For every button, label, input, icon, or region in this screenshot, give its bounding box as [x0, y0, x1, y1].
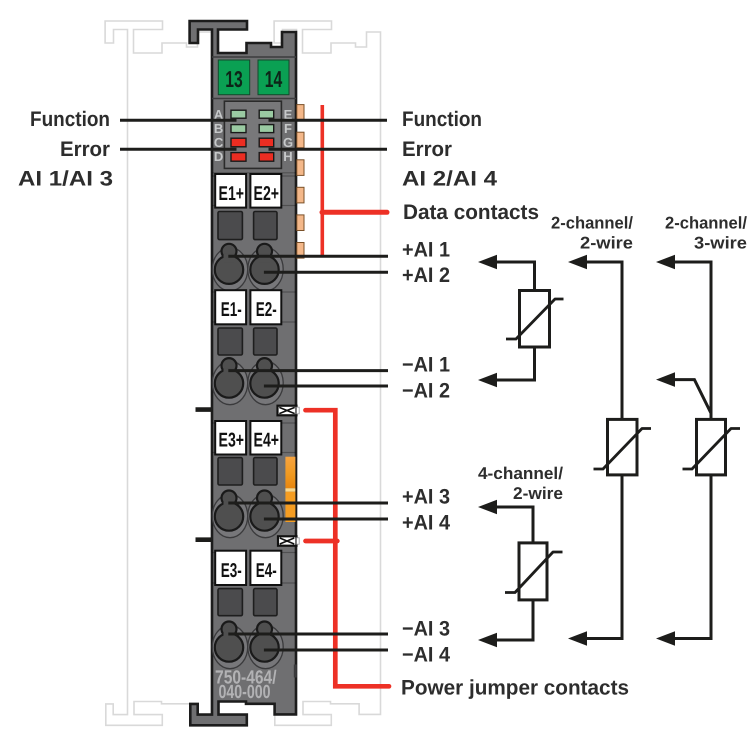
svg-text:Error: Error	[402, 138, 452, 161]
svg-text:040-000: 040-000	[219, 682, 271, 703]
svg-text:3-wire: 3-wire	[694, 233, 747, 252]
svg-text:Function: Function	[402, 108, 482, 131]
svg-text:E4-: E4-	[256, 560, 277, 582]
svg-text:D: D	[214, 149, 223, 164]
svg-text:E2-: E2-	[256, 299, 277, 321]
svg-text:H: H	[283, 149, 292, 164]
svg-text:E1-: E1-	[221, 299, 242, 321]
svg-text:E1+: E1+	[219, 183, 245, 205]
svg-text:E3-: E3-	[221, 560, 242, 582]
svg-text:E3+: E3+	[219, 430, 245, 452]
svg-text:4-channel/: 4-channel/	[478, 464, 563, 483]
svg-text:−AI 4: −AI 4	[402, 643, 450, 666]
svg-text:+AI 4: +AI 4	[402, 511, 450, 534]
svg-text:+AI 1: +AI 1	[402, 238, 450, 261]
svg-text:E2+: E2+	[254, 183, 280, 205]
svg-text:Error: Error	[60, 138, 110, 161]
svg-text:AI 1/AI 3: AI 1/AI 3	[18, 167, 113, 190]
svg-text:Function: Function	[30, 108, 110, 131]
svg-text:E4+: E4+	[254, 430, 280, 452]
svg-text:+AI 3: +AI 3	[402, 485, 450, 508]
svg-text:+AI 2: +AI 2	[402, 264, 450, 287]
svg-text:2-channel/: 2-channel/	[551, 214, 633, 233]
svg-text:−AI 3: −AI 3	[402, 617, 450, 640]
svg-text:Data contacts: Data contacts	[403, 201, 539, 224]
svg-text:G: G	[283, 135, 293, 150]
svg-text:−AI 1: −AI 1	[402, 353, 450, 376]
svg-text:−AI 2: −AI 2	[402, 379, 450, 402]
svg-text:B: B	[214, 121, 223, 136]
svg-text:Power jumper contacts: Power jumper contacts	[401, 676, 629, 699]
svg-text:F: F	[284, 121, 292, 136]
svg-text:2-wire: 2-wire	[513, 484, 563, 503]
svg-text:14: 14	[265, 66, 283, 92]
svg-text:AI 2/AI 4: AI 2/AI 4	[402, 167, 497, 190]
svg-text:C: C	[214, 135, 224, 150]
svg-text:13: 13	[225, 66, 243, 92]
svg-text:2-channel/: 2-channel/	[665, 214, 747, 233]
svg-text:2-wire: 2-wire	[580, 233, 633, 252]
